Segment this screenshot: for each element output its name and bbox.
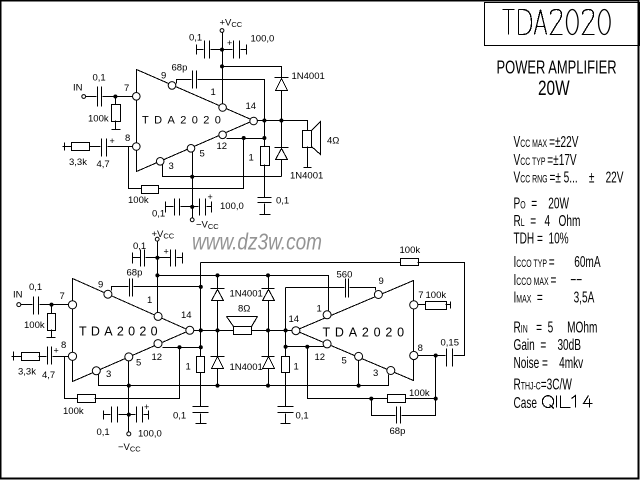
svg-text:IN: IN [13, 290, 23, 301]
svg-text:RL = 4 Ohm: RL = 4 Ohm [514, 212, 581, 230]
svg-text:20W: 20W [538, 75, 570, 99]
pin 14 output circle (bottom amp apex) [186, 326, 194, 334]
svg-text:3,3k: 3,3k [18, 366, 36, 377]
pin 12 wire (bottom left amp) [163, 347, 201, 349]
svg-text:100k: 100k [63, 406, 84, 417]
lower diode 1N4001 left (bridge) [211, 357, 225, 386]
svg-text:7: 7 [60, 291, 65, 302]
svg-text:8: 8 [61, 340, 66, 351]
svg-text:ICCO MAX = −−: ICCO MAX = −− [514, 271, 583, 289]
node dot output at zobel column [262, 119, 266, 123]
svg-text:1N4001: 1N4001 [292, 71, 325, 82]
svg-text:TDA2020: TDA2020 [323, 326, 409, 340]
svg-text:IMAX = 3,5A: IMAX = 3,5A [514, 288, 595, 306]
capacitor 68p bypass loop (U3) [372, 399, 436, 416]
svg-text:0,1: 0,1 [152, 209, 165, 220]
pin 8 input: open terminal bar [12, 352, 22, 361]
capacitor 0,1 -Vcc (bottom) [104, 411, 111, 420]
right zobel column [285, 288, 287, 357]
output line between amps [194, 330, 292, 332]
wire input to C 0,1 [21, 304, 33, 306]
capacitor 560 (bridge input to U3) [286, 287, 345, 289]
pin 1 circle (top amp) [219, 104, 227, 112]
svg-text:5: 5 [136, 357, 141, 368]
svg-text:8Ω: 8Ω [238, 304, 250, 315]
wire 68p to output column [134, 286, 201, 288]
capacitor 0,1 zobel (bottom left) [200, 373, 202, 407]
diode 1N4001 upper (top amp) [275, 78, 289, 148]
speaker 4 ohm (top amp) [303, 131, 312, 148]
capacitor 0,1 input (top amp) [98, 87, 102, 107]
resistor 3,3k (bottom amp) [22, 353, 40, 361]
wire 68p to output column [198, 80, 265, 147]
svg-text:100,0: 100,0 [251, 34, 275, 45]
title TDA2020 glyphs [503, 10, 611, 35]
svg-text:TDA2020: TDA2020 [142, 115, 226, 127]
capacitor 100,0 +Vcc electrolytic (top amp) [234, 41, 240, 59]
svg-text:100k: 100k [409, 388, 430, 399]
pin 9 circle (U3) [374, 291, 382, 299]
svg-text:1: 1 [317, 303, 322, 314]
left zobel column [200, 263, 202, 357]
svg-text:3: 3 [373, 368, 378, 379]
capacitor 0,1 input (bottom amp) [34, 297, 39, 315]
svg-text:100k: 100k [128, 195, 149, 206]
svg-text:0,1: 0,1 [29, 282, 42, 293]
title box [485, 3, 640, 46]
svg-text:+: + [227, 38, 232, 48]
pin 1 circle (bottom amp) [154, 312, 162, 320]
resistor 1 zobel (bottom right) [282, 357, 290, 373]
svg-text:1: 1 [294, 362, 299, 373]
svg-text:1: 1 [186, 362, 191, 373]
feedback 100k + 68p (U3) [308, 347, 388, 399]
input terminal circle (bottom amp) [17, 303, 21, 307]
pin 3 circle (bottom amp) [92, 367, 100, 375]
svg-text:1N4001: 1N4001 [230, 289, 263, 300]
capacitor 68p (top amp) [193, 71, 197, 89]
resistor 1 zobel (top amp) [261, 147, 270, 166]
svg-text:560: 560 [337, 269, 353, 280]
capacitor 0,1 -Vcc (top amp) [166, 202, 174, 213]
op-amp U1 triangle [137, 70, 254, 172]
node dot +Vcc to diodes [220, 64, 224, 68]
svg-text:Noise = 4mkv: Noise = 4mkv [514, 354, 584, 372]
wire C1 to pin7 [103, 96, 133, 98]
pin 8 circle (U3) [410, 351, 418, 359]
svg-text:ICCO TYP = 60mA: ICCO TYP = 60mA [514, 253, 601, 271]
pin 3 wire down (top amp) [163, 165, 282, 177]
-Vcc terminal (top amp) [190, 218, 194, 222]
wire 3,3k to C4,7 [39, 356, 47, 358]
svg-text:100k: 100k [88, 114, 109, 125]
resistor 100k to ground (top amp input) [115, 97, 117, 105]
pin 5 circle (U3) [355, 352, 363, 360]
pin 3 wire down to -V rail (bottom left) [99, 375, 389, 386]
capacitor 0,15 (U3) [447, 349, 453, 367]
svg-text:100k: 100k [426, 290, 447, 301]
svg-text:3: 3 [169, 161, 174, 172]
op-amp U2 triangle (bottom left) [73, 279, 190, 382]
svg-text:VCC RNG =± 5... ± 22V: VCC RNG =± 5... ± 22V [514, 168, 624, 186]
pin 12 wire (top amp) [227, 138, 265, 140]
svg-text:0,1: 0,1 [133, 241, 146, 252]
svg-text:9: 9 [161, 71, 166, 82]
pin 5 wire down to -Vcc (bottom left) [128, 361, 130, 432]
svg-text:+: + [164, 247, 169, 257]
pin 14 output circle (top amp apex) [250, 117, 258, 125]
upper diode 1N4001 left (bridge) [211, 276, 225, 357]
wire input to C1 [86, 96, 97, 98]
lower diode 1N4001 right (bridge) [262, 357, 275, 386]
svg-text:0,1: 0,1 [296, 410, 309, 421]
pin 8 circle (bottom amp) [68, 352, 76, 360]
wire pin8 node down to feedback 100k [129, 147, 142, 189]
svg-text:14: 14 [181, 310, 192, 321]
svg-text:RTHJ-C=3C/W: RTHJ-C=3C/W [514, 375, 573, 393]
wire 560 to pin 9 (U3) [350, 288, 376, 291]
pin 7 circle (U3) [410, 301, 418, 309]
pin 12 circle (U3) [323, 340, 331, 348]
+Vcc rail to diodes and right amp pin 1 [158, 276, 329, 311]
svg-text:1: 1 [249, 153, 254, 164]
-Vcc terminal (bottom) [127, 432, 131, 436]
pin 12 wire (U3) [286, 346, 324, 348]
capacitor 100,0 -Vcc electrolytic (bottom) [137, 407, 143, 423]
pin 7 circle (top amp) [133, 93, 141, 101]
svg-text:68p: 68p [127, 267, 143, 278]
pin 1 circle (U3) [323, 311, 331, 319]
svg-text:0,1: 0,1 [276, 196, 289, 207]
wire C to pin7 [40, 304, 69, 306]
capacitor 0,1 +Vcc decoupling (top amp) [197, 45, 204, 55]
svg-text:TDA2020: TDA2020 [79, 325, 162, 339]
capacitor 0,1 zobel (bottom right) [285, 373, 287, 407]
pin 14 output circle (U3 apex) [292, 327, 300, 335]
resistor 100k feedback (top amp) [142, 186, 159, 194]
capacitor 4,7 electrolytic (bottom amp) [48, 347, 52, 365]
pin 5 wire down to -Vcc (top amp) [192, 152, 194, 219]
resistor 100k pin7 (U3) [418, 304, 426, 306]
diode 1N4001 lower (top amp) [275, 148, 289, 177]
svg-text:12: 12 [152, 352, 163, 363]
case QIL14 glyphs [542, 396, 592, 409]
svg-text:7: 7 [418, 290, 423, 301]
wire 0,15 up and across 100k to left output column [418, 263, 465, 356]
svg-text:+: + [208, 192, 213, 202]
resistor 100k input (bottom amp) [51, 305, 53, 314]
svg-text:0,1: 0,1 [97, 427, 110, 438]
wire +Vcc to diode chain [223, 67, 282, 78]
capacitor 100,0 -Vcc electrolytic (top amp) [200, 199, 206, 216]
pin 5 wire down (U3) [358, 361, 360, 386]
capacitor 4,7 electrolytic (top amp) [102, 139, 107, 157]
resistor 3,3k (top amp) [72, 143, 90, 151]
svg-text:VCC MAX =±22V: VCC MAX =±22V [514, 133, 579, 151]
svg-text:0,15: 0,15 [441, 338, 460, 349]
node dot output at diode chain [279, 119, 283, 123]
op-amp U3 triangle (bottom right, mirrored) [296, 281, 414, 381]
svg-text:1: 1 [147, 295, 152, 306]
pin 8 circle (top amp) [133, 143, 141, 151]
svg-text:14: 14 [289, 314, 300, 325]
resistor 100k feedback (U3) [388, 395, 406, 403]
node junction dot input (top amp) [113, 95, 117, 99]
resistor 100k bridge feedback (top) [401, 259, 419, 266]
pin 7 circle (bottom amp) [68, 301, 76, 309]
resistor 100k feedback (bottom left amp) [78, 395, 96, 403]
svg-text:12: 12 [315, 352, 326, 363]
wire pin9 to 68p [112, 287, 129, 291]
wire pin8 node down to feedback 100k [65, 357, 78, 399]
capacitor 0,1 zobel (top amp) [264, 165, 266, 198]
svg-text:VCC TYP =±17V: VCC TYP =±17V [514, 150, 577, 168]
svg-text:PO = 20W: PO = 20W [514, 194, 570, 212]
svg-text:5: 5 [200, 149, 205, 160]
pin 5 circle (bottom amp) [125, 353, 133, 361]
svg-text:Case: Case [514, 393, 538, 411]
wire feedback to pin12 node [159, 139, 244, 189]
svg-text:12: 12 [217, 141, 228, 152]
svg-text:1N4001: 1N4001 [230, 362, 263, 373]
wire +Vcc down to pin 1 (bottom left) [157, 242, 159, 313]
svg-text:+VCC: +VCC [220, 18, 243, 30]
svg-text:8: 8 [418, 343, 423, 354]
svg-text:9: 9 [98, 280, 103, 291]
svg-text:4,7: 4,7 [97, 159, 110, 170]
svg-text:68p: 68p [172, 62, 188, 73]
svg-text:IN: IN [73, 83, 83, 94]
svg-text:3,3k: 3,3k [69, 157, 87, 168]
wire pin9 to 68p [177, 80, 192, 84]
pin 5 circle (top amp) [187, 145, 195, 153]
pin 9 circle (top amp) [168, 82, 176, 90]
svg-text:100,0: 100,0 [138, 428, 162, 439]
pin 9 circle (bottom amp) [104, 290, 112, 298]
wire 3,3k to C4,7 [90, 146, 101, 148]
svg-text:14: 14 [246, 101, 257, 112]
svg-text:1N4001: 1N4001 [290, 171, 323, 182]
pin 12 circle (bottom amp) [154, 340, 162, 348]
capacitor 100,0 +Vcc electrolytic (bottom) [171, 250, 176, 267]
svg-text:RIN = 5 MOhm: RIN = 5 MOhm [514, 318, 598, 336]
wire C4,7 to pin 8 [53, 356, 69, 358]
wire feedback to pin12 node [95, 348, 180, 399]
resistor 1 zobel (bottom left) [197, 357, 205, 373]
svg-text:4Ω: 4Ω [327, 136, 339, 147]
svg-text:7: 7 [124, 83, 129, 94]
pin 8 network: open terminal bar [63, 143, 72, 151]
svg-text:Gain = 30dB: Gain = 30dB [514, 336, 582, 354]
svg-text:+: + [54, 346, 59, 356]
svg-text:5: 5 [342, 355, 347, 366]
upper diode 1N4001 right (bridge) [262, 276, 275, 357]
svg-text:TDH = 10%: TDH = 10% [514, 229, 569, 247]
pin 12 circle (top amp) [219, 131, 227, 139]
svg-text:100k: 100k [400, 245, 421, 256]
svg-text:9: 9 [379, 276, 384, 287]
svg-text:0,1: 0,1 [173, 410, 186, 421]
svg-text:−VCC: −VCC [118, 442, 141, 454]
svg-text:8: 8 [125, 133, 130, 144]
svg-text:100,0: 100,0 [220, 201, 244, 212]
svg-text:4,7: 4,7 [42, 370, 55, 381]
capacitor 68p (bottom amp) [130, 279, 133, 297]
svg-text:100k: 100k [24, 320, 45, 331]
node junction dot (bottom amp input) [50, 303, 54, 307]
svg-text:+: + [110, 136, 115, 146]
wire output line (top amp) [258, 121, 308, 131]
capacitor 0,1 +Vcc (bottom) [133, 253, 141, 264]
svg-text:0,1: 0,1 [93, 73, 106, 84]
wire pin 8 to 0,15 cap [418, 355, 446, 357]
svg-text:www.dz3w.com: www.dz3w.com [192, 229, 322, 255]
input terminal circle (top amp) [82, 95, 86, 99]
wire C4,7 to pin 8 [108, 146, 133, 148]
node dot +Vcc caps [220, 48, 224, 52]
svg-text:68p: 68p [390, 426, 406, 437]
pin 3 circle (U3) [387, 367, 395, 375]
wire +Vcc down to pin 1 [222, 33, 224, 104]
svg-text:1: 1 [211, 87, 216, 98]
svg-text:0,1: 0,1 [189, 33, 202, 44]
svg-text:3: 3 [106, 369, 111, 380]
pin 3 circle (top amp) [156, 158, 164, 166]
